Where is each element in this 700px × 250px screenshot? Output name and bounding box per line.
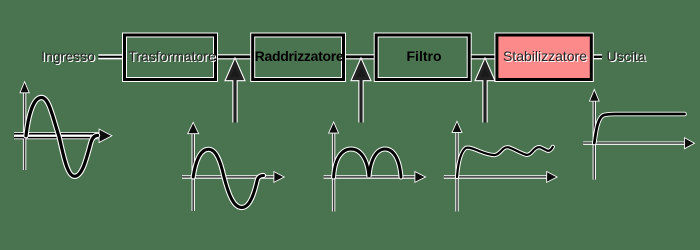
svg-text:Raddrizzatore: Raddrizzatore (255, 48, 344, 64)
svg-text:Trasformatore: Trasformatore (128, 48, 216, 64)
svg-text:Filtro: Filtro (407, 48, 442, 64)
svg-text:Stabilizzatore: Stabilizzatore (503, 48, 587, 64)
svg-text:Ingresso: Ingresso (41, 48, 95, 64)
svg-text:Uscita: Uscita (607, 48, 646, 64)
